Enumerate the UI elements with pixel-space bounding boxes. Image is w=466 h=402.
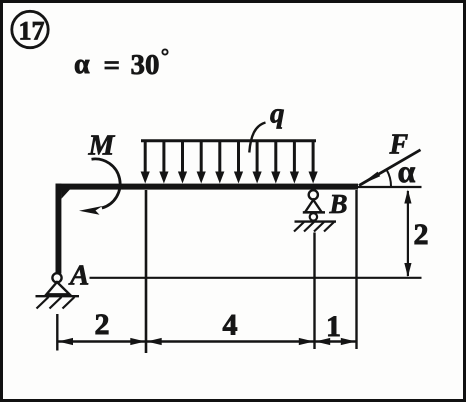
svg-text:30: 30 — [131, 49, 160, 81]
problem number circle 17 — [12, 11, 48, 47]
vertical dimension line 2 — [407, 191, 409, 276]
extension tick below A — [56, 314, 58, 351]
dimension arrowhead right of segment 4 — [299, 338, 314, 345]
support A pin circle — [52, 273, 61, 282]
force F arrowhead — [359, 172, 380, 186]
horizontal reference line from A — [90, 277, 422, 279]
support B ground line — [295, 220, 337, 222]
support B triangle — [305, 200, 322, 213]
extension line below B — [313, 233, 315, 350]
dimension arrowhead left of segment 1 — [315, 338, 330, 345]
svg-text:α: α — [398, 153, 416, 189]
load label q leader line — [249, 123, 265, 153]
angle alpha arc — [387, 170, 391, 187]
dimension arrowhead right at load start — [130, 338, 145, 345]
extension line below load start — [145, 190, 148, 353]
distributed load q top line — [141, 139, 316, 142]
extension line below beam end — [355, 190, 357, 349]
beam horizontal member — [56, 184, 359, 190]
support B ground hatching — [294, 222, 334, 232]
svg-text:=: = — [104, 50, 121, 82]
svg-text:1: 1 — [326, 310, 341, 343]
support A ground hatching — [37, 297, 75, 309]
bottom dimension line — [57, 340, 356, 342]
svg-text:B: B — [329, 189, 348, 219]
reference line right of beam — [358, 186, 422, 188]
svg-text:2: 2 — [414, 218, 429, 251]
svg-text:A: A — [68, 260, 89, 292]
beam vertical member — [56, 184, 62, 274]
support A triangle — [47, 282, 70, 294]
vertical dimension down arrowhead — [404, 263, 411, 277]
svg-text:4: 4 — [223, 309, 238, 342]
svg-text:α: α — [74, 49, 90, 80]
force F line — [359, 150, 421, 186]
support B pin circle — [309, 190, 318, 199]
svg-text:2: 2 — [95, 308, 110, 341]
vertical dimension up arrowhead — [404, 190, 411, 204]
svg-text:q: q — [270, 98, 285, 130]
support B roller circle — [310, 213, 317, 220]
support A ground line — [36, 295, 80, 297]
svg-text:17: 17 — [19, 16, 45, 45]
dimension arrowhead left at A — [58, 338, 73, 345]
moment M arrowhead — [79, 206, 103, 215]
moment M arc — [92, 159, 121, 208]
dimension arrowhead left of segment 4 — [147, 338, 162, 345]
dimension arrowhead right at beam end — [341, 338, 356, 345]
distributed load arrows — [141, 140, 318, 184]
formula degree symbol — [162, 49, 167, 54]
svg-text:M: M — [88, 130, 116, 162]
beam corner fillet — [61, 189, 70, 198]
support B triangle base bar — [303, 211, 325, 214]
